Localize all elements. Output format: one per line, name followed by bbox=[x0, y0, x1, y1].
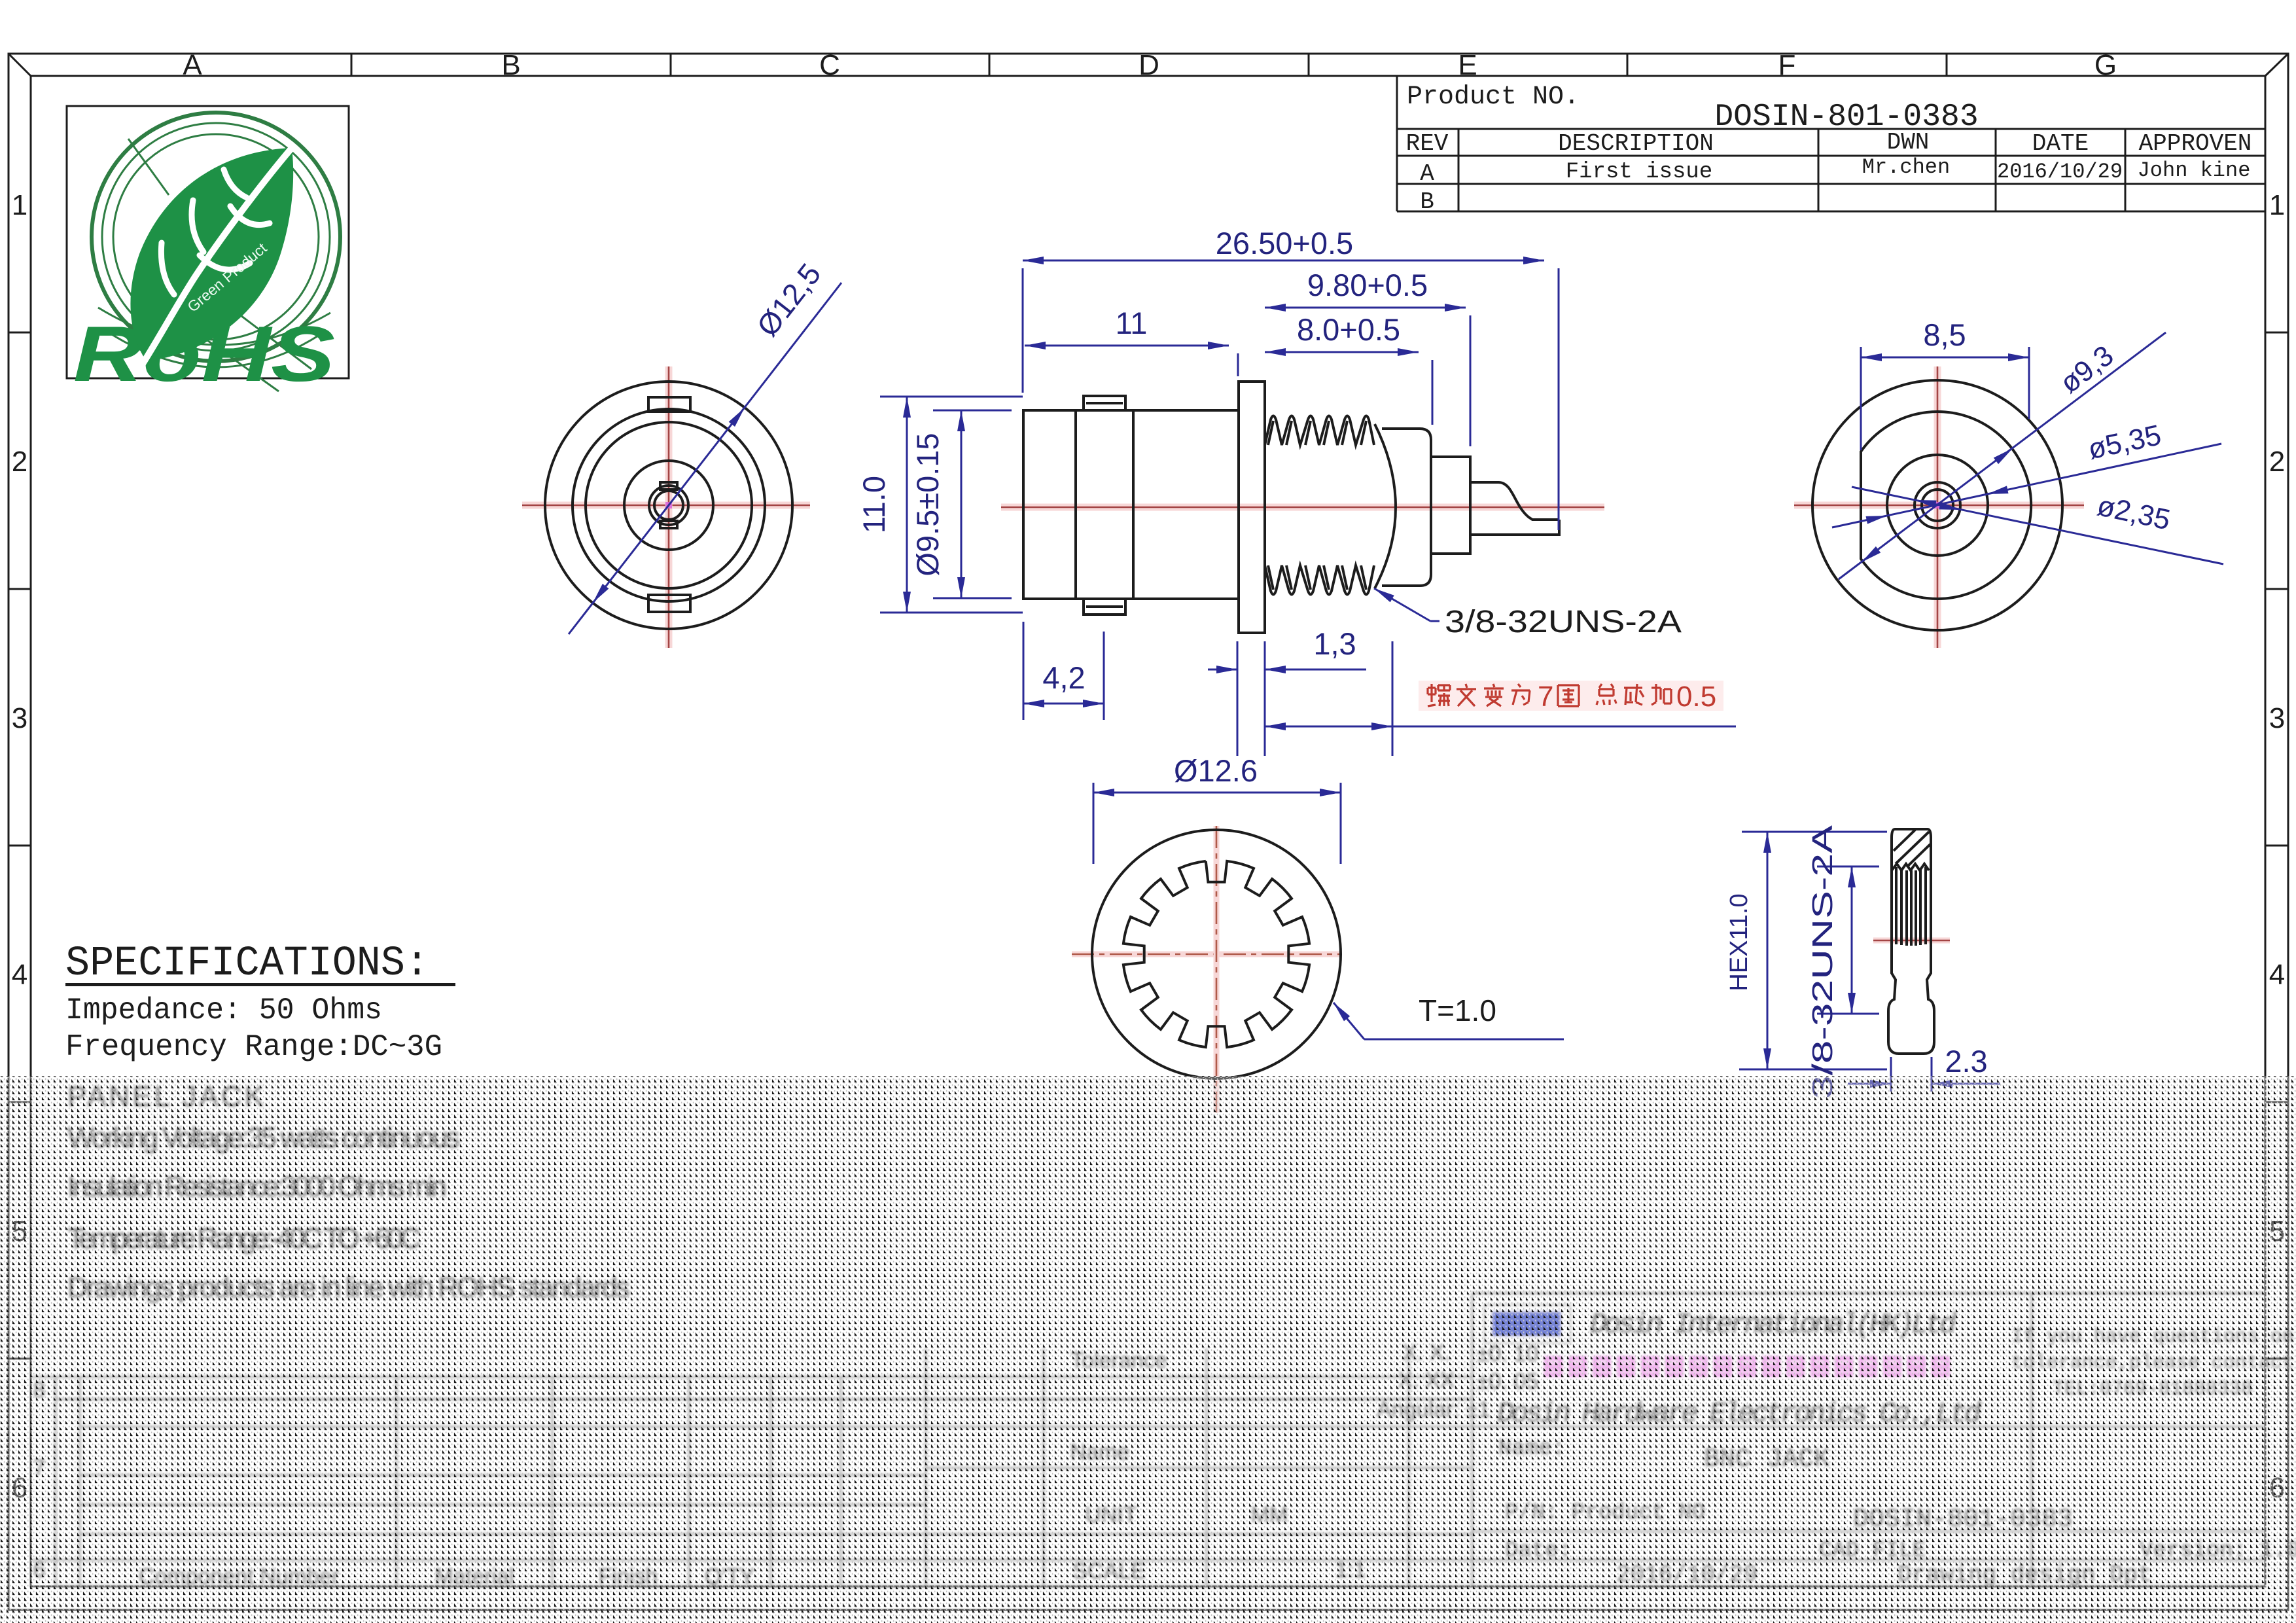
dimension 1,3 bbox=[1237, 641, 1239, 756]
bayonet stud top bbox=[1084, 396, 1125, 410]
svg-text:First issue: First issue bbox=[1566, 160, 1712, 185]
side sectional view bbox=[857, 226, 1736, 756]
svg-text:ø2,35: ø2,35 bbox=[2094, 490, 2173, 536]
dimension 2.3 bbox=[1890, 1057, 1892, 1092]
specifications text bbox=[65, 940, 455, 1064]
centerline vertical (front view) bbox=[665, 366, 673, 648]
panel flange bbox=[1239, 382, 1265, 633]
svg-text:8,5: 8,5 bbox=[1923, 317, 1966, 352]
svg-text:2: 2 bbox=[12, 446, 27, 478]
svg-text:John kine: John kine bbox=[2138, 158, 2251, 183]
centerline (side view) bbox=[1001, 504, 1604, 511]
dimension leader D12,5 bbox=[569, 283, 841, 634]
svg-text:1: 1 bbox=[2269, 189, 2285, 221]
svg-text:Ø12,5: Ø12,5 bbox=[750, 257, 827, 343]
svg-text:Product NO.: Product NO. bbox=[1407, 82, 1580, 112]
svg-text:2016/10/29: 2016/10/29 bbox=[1997, 160, 2123, 184]
svg-text:2: 2 bbox=[2269, 446, 2285, 478]
svg-text:APPROVEN: APPROVEN bbox=[2139, 130, 2252, 157]
svg-text:3/8-32UNS-2A: 3/8-32UNS-2A bbox=[1445, 605, 1682, 639]
svg-text:3: 3 bbox=[2269, 702, 2285, 734]
svg-text:B: B bbox=[501, 49, 520, 81]
BNC shell outer circle bbox=[545, 382, 792, 629]
svg-text:3/8-32UNS-2A: 3/8-32UNS-2A bbox=[1807, 825, 1839, 1099]
centerline horizontal (front view) bbox=[522, 502, 810, 509]
svg-text:1: 1 bbox=[12, 189, 27, 221]
svg-text:A: A bbox=[183, 49, 202, 81]
dimension 9.80+0.5 bbox=[1470, 315, 1472, 446]
D9.3 circle with flat bbox=[1861, 412, 2031, 599]
lock washer outer circle bbox=[1092, 830, 1341, 1079]
svg-text:ø9,3: ø9,3 bbox=[2054, 339, 2119, 399]
nut side view bbox=[1725, 825, 2000, 1099]
svg-text:7: 7 bbox=[1538, 681, 1553, 713]
leader d2,35 bbox=[1852, 487, 2223, 564]
svg-text:HEX11.0: HEX11.0 bbox=[1725, 893, 1753, 991]
svg-text:Ø12.6: Ø12.6 bbox=[1174, 753, 1258, 788]
dither overlay bbox=[0, 1076, 2296, 1623]
rear body block bbox=[1382, 429, 1431, 586]
dimension 4,2 bbox=[1023, 622, 1025, 720]
dimension 11 bbox=[1025, 345, 1229, 347]
dimension 8.0+0.5 bbox=[1432, 360, 1434, 425]
svg-text:3: 3 bbox=[12, 702, 27, 734]
centerline vertical (rear view) bbox=[1934, 366, 1941, 648]
bayonet stud bottom bbox=[1084, 599, 1125, 615]
thread spec leader 3/8-32UNS-2A bbox=[1374, 588, 1430, 621]
svg-text:B: B bbox=[1420, 188, 1434, 215]
dimension D12.6 bbox=[1093, 783, 1095, 864]
rear step block bbox=[1431, 457, 1470, 554]
svg-text:Ø9.5±0.15: Ø9.5±0.15 bbox=[910, 433, 945, 576]
svg-text:2.3: 2.3 bbox=[1945, 1044, 1987, 1079]
note dimension line bbox=[1392, 641, 1394, 756]
svg-text:4: 4 bbox=[2269, 959, 2285, 991]
nut centerline bbox=[1873, 938, 1950, 944]
dimension D9.5+-0.15 bbox=[933, 410, 1012, 412]
svg-text:REV: REV bbox=[1406, 130, 1449, 157]
title block bbox=[1397, 76, 2265, 211]
svg-text:Impedance: 50 Ohms: Impedance: 50 Ohms bbox=[65, 993, 382, 1027]
leader d5,35 bbox=[1832, 444, 2221, 527]
blurred bottom content bbox=[31, 1080, 2296, 1589]
threaded section 3/8-32UNS bbox=[1265, 416, 1374, 446]
solder lug bbox=[1470, 482, 1559, 520]
dimension 3/8-32UNS-2A length bbox=[1817, 866, 1879, 868]
leader T=1.0 bbox=[1333, 1003, 1364, 1039]
leader d9,3 bbox=[1839, 332, 2166, 579]
svg-text:11.0: 11.0 bbox=[857, 476, 891, 533]
rear view outer circle bbox=[1812, 380, 2062, 630]
svg-text:F: F bbox=[1778, 49, 1796, 81]
RoHS logo bbox=[67, 106, 349, 398]
svg-text:T=1.0: T=1.0 bbox=[1419, 993, 1496, 1027]
rear dome arc bbox=[1375, 424, 1396, 588]
svg-text:1,3: 1,3 bbox=[1313, 626, 1356, 661]
svg-text:DESCRIPTION: DESCRIPTION bbox=[1558, 130, 1714, 157]
svg-text:E: E bbox=[1458, 49, 1477, 81]
lock washer internal teeth bbox=[1123, 861, 1309, 1047]
washer centerlines bbox=[1072, 952, 1341, 957]
centerline horizontal (rear view) bbox=[1794, 502, 2084, 509]
svg-text:26.50+0.5: 26.50+0.5 bbox=[1216, 226, 1353, 260]
dimension 11.0 bbox=[880, 396, 1023, 398]
svg-text:G: G bbox=[2094, 49, 2117, 81]
svg-text:4,2: 4,2 bbox=[1042, 660, 1085, 695]
svg-text:9.80+0.5: 9.80+0.5 bbox=[1307, 268, 1428, 302]
svg-text:SPECIFICATIONS:: SPECIFICATIONS: bbox=[65, 940, 429, 988]
svg-text:0.5: 0.5 bbox=[1676, 681, 1716, 713]
svg-text:DATE: DATE bbox=[2032, 130, 2089, 157]
svg-text:DOSIN-801-0383: DOSIN-801-0383 bbox=[1714, 99, 1978, 135]
svg-text:DWN: DWN bbox=[1887, 129, 1930, 156]
svg-text:D: D bbox=[1139, 49, 1159, 81]
dimension 8,5 bbox=[1860, 347, 1862, 450]
svg-text:C: C bbox=[819, 49, 840, 81]
left circular view (BNC front) bbox=[522, 257, 841, 648]
svg-text:4: 4 bbox=[12, 959, 27, 991]
lock washer view bbox=[1072, 753, 1564, 1113]
right circular view bbox=[1794, 317, 2223, 648]
svg-text:Frequency Range:DC~3G: Frequency Range:DC~3G bbox=[65, 1030, 442, 1064]
red note (thread turns) bbox=[1419, 681, 1723, 711]
svg-text:8.0+0.5: 8.0+0.5 bbox=[1297, 312, 1400, 347]
svg-text:A: A bbox=[1420, 160, 1434, 187]
dimension 26.50+0.5 bbox=[1022, 268, 1024, 393]
BNC barrel body bbox=[1023, 410, 1239, 599]
svg-text:11: 11 bbox=[1116, 306, 1148, 340]
dimension HEX11.0 bbox=[1742, 831, 1887, 833]
svg-text:Mr.chen: Mr.chen bbox=[1862, 155, 1950, 179]
